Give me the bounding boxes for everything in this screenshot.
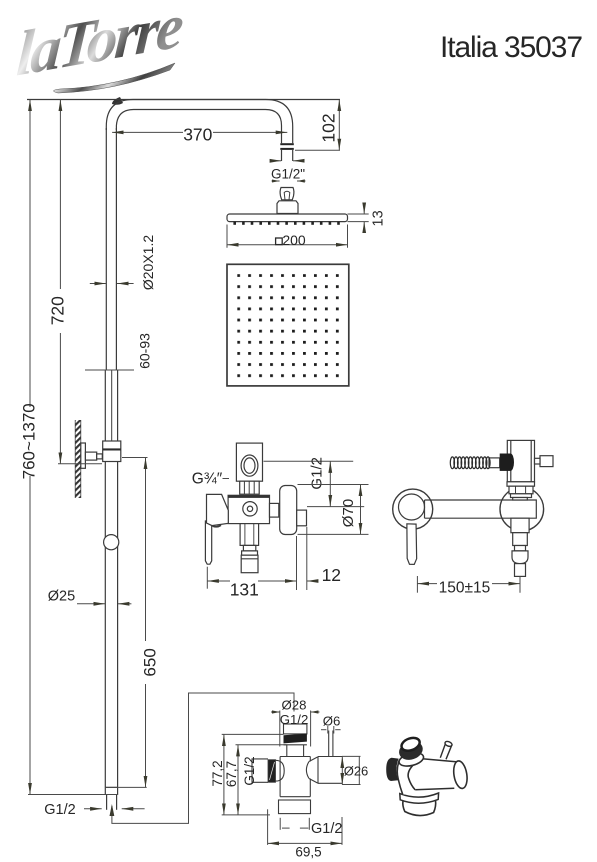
svg-text:Ø28: Ø28	[282, 698, 307, 713]
svg-text:12: 12	[322, 565, 341, 585]
svg-text:67,7: 67,7	[224, 761, 239, 787]
dim 370	[112, 131, 183, 133]
dim Ø28	[271, 711, 320, 747]
svg-text:G1/2: G1/2	[280, 712, 309, 727]
wall hatch	[75, 420, 81, 498]
svg-text:Italia 35037: Italia 35037	[440, 31, 582, 64]
dim Ø70	[298, 485, 369, 535]
div right branch cylinder	[317, 757, 319, 784]
svg-text:720: 720	[48, 296, 68, 325]
div Ø6 pipe	[328, 731, 330, 757]
svg-text:200: 200	[282, 232, 306, 248]
mixer handle tab notch	[213, 525, 222, 527]
svg-text:370: 370	[183, 125, 212, 145]
div top cylinder	[284, 724, 307, 734]
3d right branch	[415, 759, 458, 790]
dim G1/2 bottom outlet	[280, 818, 309, 830]
side right knob	[540, 456, 553, 467]
3d left knob	[386, 758, 398, 781]
dim 13	[348, 205, 369, 231]
dim 77,2	[222, 734, 284, 815]
3d bottom cup	[403, 800, 436, 815]
svg-text:laTorre: laTorre	[15, 0, 186, 90]
mixer wall flange	[280, 486, 297, 535]
head nozzles row	[233, 222, 339, 225]
svg-text:Ø20X1.2: Ø20X1.2	[140, 235, 156, 290]
3d body	[397, 758, 425, 795]
3d cap base ring	[398, 751, 425, 769]
dim 720	[59, 100, 61, 290]
bracket knob	[85, 452, 96, 460]
dim G1/2 bottom	[84, 808, 102, 810]
dim 650	[145, 458, 147, 642]
side hose connector	[489, 458, 500, 468]
svg-text:760~1370: 760~1370	[20, 403, 39, 479]
inner tube line	[111, 370, 113, 441]
mixer top housing	[236, 443, 262, 481]
side handle circle	[393, 489, 433, 529]
svg-text:G1/2: G1/2	[242, 756, 257, 785]
arm nut on down pipe	[280, 143, 294, 150]
head connector block	[277, 201, 298, 214]
3d branch saddle curve	[408, 760, 419, 790]
shower arm outer contour	[106, 100, 292, 162]
dim ticks below G1/2 label	[272, 180, 280, 182]
dim 760~1370	[29, 100, 31, 408]
mixer threaded collar G3/4	[240, 481, 260, 494]
dim 102	[295, 149, 340, 151]
pipe end feature line	[105, 786, 117, 788]
svg-text:Ø25: Ø25	[48, 589, 75, 605]
dim Ø20X1.2	[90, 283, 106, 285]
side body bar	[425, 500, 537, 518]
dim Ø6	[321, 726, 341, 734]
div body	[280, 756, 310, 758]
bracket clamp block	[103, 441, 121, 462]
leader from column outlet to diverter inlet	[112, 693, 294, 823]
mixer top port ring	[241, 455, 258, 476]
svg-text:G¾″: G¾″	[192, 471, 223, 488]
side wall flange circle	[500, 487, 544, 531]
dim Ø25	[77, 603, 105, 605]
svg-text:77,2: 77,2	[210, 760, 225, 786]
svg-text:Ø6: Ø6	[323, 714, 341, 729]
dim 60-93 refs	[85, 369, 134, 371]
side handle lever	[405, 524, 417, 565]
3d small pipe	[440, 744, 452, 760]
mixer body screw	[243, 502, 257, 516]
dim Ø26	[342, 756, 361, 784]
dim 69,5	[268, 809, 342, 845]
side top diverter box	[507, 440, 534, 481]
svg-text:13: 13	[371, 210, 387, 226]
mixer right stub	[270, 503, 279, 517]
svg-text:G1/2: G1/2	[44, 802, 75, 818]
logo laTorre	[3, 0, 198, 105]
side hose coil	[450, 457, 490, 469]
side outlet blocks	[511, 518, 529, 533]
title Italia 35037	[440, 31, 582, 64]
svg-text:G1/2": G1/2"	[271, 167, 305, 182]
mixer body	[228, 495, 269, 523]
head bottom view square	[227, 264, 349, 386]
slider knob on rail	[104, 535, 119, 550]
div left nipple	[252, 759, 268, 782]
side hose nut (black)	[507, 454, 514, 471]
svg-text:102: 102	[318, 113, 338, 142]
ceiling datum line	[27, 99, 340, 101]
div neck	[286, 745, 288, 757]
bracket stub	[97, 454, 103, 459]
mixer outlet stub right	[297, 510, 307, 526]
riser pipe lower section Ø25	[104, 370, 106, 795]
svg-text:Ø26: Ø26	[344, 763, 369, 778]
side neck	[513, 498, 528, 501]
dim G1/2 (top port)	[264, 461, 365, 506]
dim square200	[227, 225, 348, 248]
svg-text:150±15: 150±15	[439, 579, 491, 596]
logo swoosh	[53, 63, 175, 93]
div left nipple hatch	[268, 760, 276, 783]
svg-text:Ø70: Ø70	[340, 499, 357, 527]
mixer handle lever	[205, 521, 211, 564]
svg-text:650: 650	[141, 648, 160, 676]
dim 131	[207, 567, 296, 589]
3d bottom collar	[400, 793, 439, 803]
side nut stack	[507, 482, 535, 486]
mixer handle cap	[207, 494, 229, 525]
div knurled nut	[284, 734, 307, 744]
div right branch cone	[309, 757, 318, 762]
dim 12	[297, 527, 319, 590]
bracket wall plate	[81, 443, 86, 468]
svg-text:G1/2: G1/2	[311, 821, 342, 837]
3d top opening	[400, 736, 422, 754]
head spray dot grid	[237, 274, 340, 378]
svg-text:69,5: 69,5	[295, 845, 321, 860]
bottom G1/2 stub	[106, 795, 108, 810]
head ball joint upper	[280, 188, 294, 200]
dim G1/2 inch top arrows	[271, 160, 282, 162]
riser pipe upper section Ø20	[105, 128, 107, 370]
svg-text:131: 131	[230, 580, 259, 600]
shower arm inner contour	[116, 110, 281, 162]
head plate side view	[227, 214, 348, 222]
dim 150±15	[417, 576, 520, 593]
3d knurled collar	[397, 738, 426, 763]
dim 67,7	[236, 745, 287, 815]
div bottom cylinder	[279, 800, 311, 814]
mixer outlet cascade	[240, 524, 259, 546]
svg-text:60-93: 60-93	[136, 333, 152, 369]
div left boss curve	[276, 760, 285, 781]
